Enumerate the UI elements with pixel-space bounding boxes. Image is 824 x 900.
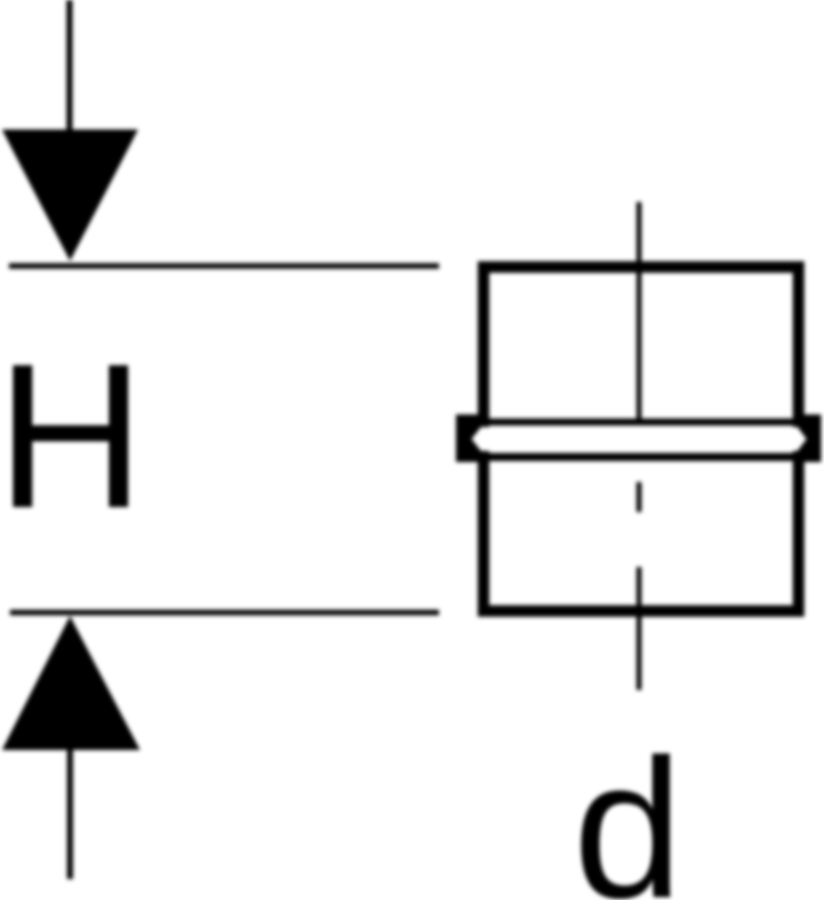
fitting body outline (484, 267, 799, 611)
bead flange right nub (798, 415, 821, 463)
dimension arrow line top (67, 0, 73, 131)
centerline upper segment (637, 202, 642, 419)
bead white groove (472, 427, 807, 451)
bead top line (484, 419, 798, 426)
svg-text:H: H (0, 321, 145, 551)
dimension extension line bottom (10, 610, 439, 616)
centerline lower segment (637, 567, 642, 690)
centerline dash segment (637, 482, 642, 512)
dimension arrowhead bottom (up) (2, 616, 140, 750)
dimension extension line top (9, 263, 439, 269)
bead bottom line (484, 453, 798, 461)
bead flange left nub (456, 415, 484, 463)
dimension arrow line bottom (67, 749, 73, 879)
dimension arrowhead top (down) (2, 130, 138, 262)
svg-text:d: d (573, 718, 683, 900)
